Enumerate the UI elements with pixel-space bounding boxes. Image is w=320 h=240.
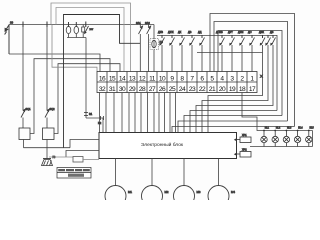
wire K2 bottom to ground bracket <box>46 140 48 148</box>
wire cross link y52.8 <box>197 52 263 54</box>
svg-text:ДТВ: ДТВ <box>158 31 163 34</box>
wire strip drop 9 <box>153 93 155 134</box>
fuse F3 small element <box>82 25 85 38</box>
wire top-right loop bus y14 <box>210 14 295 127</box>
wire strip drop 3 <box>113 93 115 134</box>
wire strip drop 10 <box>158 93 160 134</box>
relay box K2 <box>43 128 55 140</box>
relay box K1 <box>19 128 30 140</box>
wire lamp bottom bus <box>250 146 313 148</box>
svg-text:20: 20 <box>219 86 226 93</box>
svg-text:30: 30 <box>10 21 14 25</box>
wire loop B (inner light loop) <box>56 8 124 72</box>
component small series element E1 <box>84 113 88 116</box>
sensor S5 <box>199 35 204 72</box>
sensor S9 <box>249 35 254 72</box>
svg-text:19: 19 <box>229 86 236 93</box>
svg-text:Электронный блок: Электронный блок <box>141 141 184 148</box>
wire lamp feed from terminal 24 <box>242 93 257 131</box>
sensor S12 <box>270 35 275 46</box>
svg-text:26: 26 <box>159 86 166 93</box>
sensor S4 <box>189 35 194 72</box>
wire top-right loop bus y31 <box>218 31 282 116</box>
wire strip drop 12 <box>169 93 171 134</box>
svg-text:18: 18 <box>239 86 246 93</box>
svg-text:10: 10 <box>159 76 166 83</box>
svg-text:ДК: ДК <box>178 31 182 34</box>
wire bus y14 end L into block <box>172 127 295 134</box>
svg-text:ДВ: ДВ <box>188 31 192 34</box>
wire lever drop to comp row <box>85 38 87 119</box>
svg-text:ХР2: ХР2 <box>242 149 247 152</box>
wire strip drop 11 <box>164 93 166 134</box>
svg-text:ДТЖ: ДТЖ <box>168 31 174 34</box>
svg-text:SQ2: SQ2 <box>50 108 56 111</box>
wire K1 output riser to H y59 <box>30 59 110 134</box>
svg-text:ДС: ДС <box>248 31 252 34</box>
connector arrow W1 (top left supply) <box>5 25 10 35</box>
terminal strip X <box>97 72 257 93</box>
wire to comp E2 <box>86 117 103 119</box>
svg-text:ДТМ: ДТМ <box>238 31 243 34</box>
wire K1 bottom to ground bracket <box>23 140 25 148</box>
legend table top row text band <box>58 169 90 171</box>
connector plug XP2 to block right <box>234 152 251 158</box>
sensor S7 <box>229 35 234 72</box>
motor M4 <box>208 186 229 207</box>
switch SQ2 <box>45 107 50 128</box>
wire strip drop 13 <box>175 93 177 134</box>
terminal numbers top row <box>99 76 255 83</box>
svg-text:M4: M4 <box>231 190 235 194</box>
terminal numbers bottom row <box>99 86 256 93</box>
wire S12 nested L into block <box>196 45 273 133</box>
sensor S1 <box>159 35 164 72</box>
wire motor M4 stub <box>218 159 220 186</box>
wire top-right loop bus y22 <box>214 22 288 122</box>
svg-text:HL3: HL3 <box>287 127 292 129</box>
wire lamp bus right link <box>312 131 314 147</box>
wire branch x47 (switch SQ2 feed) <box>46 25 48 108</box>
svg-text:16: 16 <box>99 76 106 83</box>
sensor S8 <box>239 35 244 72</box>
wire switch SA1 branch <box>139 25 144 72</box>
svg-text:SA1: SA1 <box>136 22 141 25</box>
fuse F1 <box>66 22 71 38</box>
wire motor M2 stub <box>151 159 153 186</box>
svg-text:14: 14 <box>119 76 126 83</box>
wire E2 down into block <box>102 118 104 133</box>
wire bus y35 end L into block <box>190 111 277 134</box>
wire strip drop 1 <box>99 93 101 134</box>
svg-text:29: 29 <box>129 86 136 93</box>
sensor S10 <box>260 35 265 46</box>
wire dark frame around fuse group (left edge down to ground bracket) <box>64 15 141 148</box>
svg-text:23: 23 <box>189 86 196 93</box>
component E2 <box>101 116 104 120</box>
wire bus y31 end L into block <box>184 116 282 134</box>
svg-text:24: 24 <box>179 86 186 93</box>
svg-text:11: 11 <box>149 76 156 83</box>
svg-text:ДВК: ДВК <box>259 31 264 34</box>
wire bus y22 end L into block <box>178 121 288 133</box>
svg-text:ДВ: ДВ <box>270 31 274 34</box>
wire to ground <box>46 148 48 159</box>
lamp HL1 <box>261 130 267 147</box>
wire node x9 drop to y54 <box>8 25 10 55</box>
motor M1 <box>105 186 126 207</box>
svg-text:21: 21 <box>209 86 216 93</box>
lamp HL4 <box>294 130 300 147</box>
wire x52 stepped to terminal strip <box>52 25 97 72</box>
wire strip drop 2 <box>105 93 107 134</box>
wire H y54 to terminal 16 <box>9 54 100 72</box>
svg-text:15: 15 <box>109 76 116 83</box>
motor M2 <box>142 186 163 207</box>
legend table bottom center cell <box>68 174 84 177</box>
wire fuse group bottom bracket <box>67 37 86 39</box>
svg-text:ДУТ: ДУТ <box>228 31 233 34</box>
switch SQ1 <box>21 107 26 128</box>
sensor S6 <box>219 35 224 72</box>
svg-text:SQ1: SQ1 <box>26 108 32 111</box>
svg-text:13: 13 <box>129 76 136 83</box>
wire sensor bus y35 <box>157 35 277 37</box>
svg-text:ДД: ДД <box>198 31 202 34</box>
wire block left stub 1 <box>70 140 99 148</box>
svg-text:30: 30 <box>119 86 126 93</box>
wire strip drop 4 <box>121 93 123 134</box>
svg-text:HL2: HL2 <box>276 127 281 129</box>
svg-text:ДСКВ: ДСКВ <box>216 31 223 34</box>
svg-text:28: 28 <box>139 86 146 93</box>
wire S10 nested L into block <box>208 45 263 133</box>
lamp HL3 <box>283 130 289 147</box>
svg-text:HL1: HL1 <box>265 127 270 129</box>
connector plug XP1 to block right <box>234 137 251 143</box>
wire branch x23 (switch SQ1 feed) <box>22 25 24 108</box>
wire K2 output riser to H y63.7 <box>54 64 120 134</box>
wire strip drop 6 <box>134 93 136 134</box>
sensor S3 <box>179 35 184 72</box>
wire F4 down to strip <box>153 50 155 72</box>
svg-text:HL4: HL4 <box>298 127 303 129</box>
lamp HL5 <box>306 130 312 147</box>
svg-text:X: X <box>260 74 263 79</box>
svg-text:M1: M1 <box>128 190 132 194</box>
svg-text:22: 22 <box>199 86 206 93</box>
wire strip drop 8 <box>147 93 149 134</box>
wire strip drop 5 <box>128 93 130 134</box>
svg-text:M3: M3 <box>197 190 201 194</box>
svg-text:31: 31 <box>109 86 116 93</box>
wire main top bus <box>9 24 154 26</box>
wire lamp top bus <box>257 130 313 132</box>
electronic block box <box>99 133 237 159</box>
wire S11 nested L into block <box>202 45 268 133</box>
sensor S11 <box>265 35 270 46</box>
legend table <box>57 168 91 179</box>
wire motor M3 stub <box>183 159 185 186</box>
wire ground bracket <box>24 147 71 149</box>
sensor S2 <box>169 35 174 72</box>
wire gray link ground to battery label <box>49 156 73 158</box>
ground symbol <box>42 159 53 166</box>
fuse F4 in dashed box <box>150 39 159 50</box>
svg-text:27: 27 <box>149 86 156 93</box>
battery label box <box>73 157 83 163</box>
svg-text:ХР1: ХР1 <box>242 134 247 137</box>
fuse F2 <box>74 22 79 38</box>
switch lever SA0 <box>84 22 88 35</box>
wire battery to block underside <box>83 159 99 161</box>
wire switch SA2 branch <box>147 25 152 72</box>
svg-text:M2: M2 <box>165 190 169 194</box>
wire bus end drop to fuse F4 <box>153 25 155 40</box>
wire motor M1 stub <box>115 159 117 186</box>
svg-text:12: 12 <box>139 76 146 83</box>
wire strip drop 7 <box>140 93 142 134</box>
svg-text:17: 17 <box>249 86 256 93</box>
wire block left stub 2 <box>66 151 99 158</box>
svg-text:25: 25 <box>169 86 176 93</box>
motor M3 <box>174 186 195 207</box>
svg-text:SA2: SA2 <box>145 22 150 25</box>
svg-text:HL5: HL5 <box>310 127 315 129</box>
wire loop A (outer light loop over fuse group) <box>51 3 131 72</box>
wire sensor bus right end drop <box>276 35 278 111</box>
lamp HL2 <box>272 130 278 147</box>
svg-text:32: 32 <box>99 86 106 93</box>
svg-text:ГЗ: ГЗ <box>53 156 56 159</box>
